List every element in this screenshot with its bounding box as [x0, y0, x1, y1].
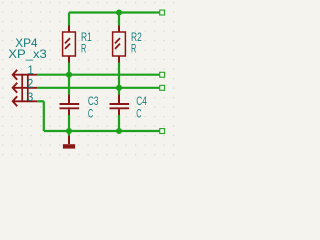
capacitor C3 — [60, 95, 80, 115]
no-connect square wire B end — [160, 85, 165, 90]
wire B pin2 net — [37, 87, 160, 89]
wire R1 top drop — [68, 13, 70, 26]
wire C4 bottom to wire G — [118, 115, 120, 131]
wire top bus — [69, 11, 160, 13]
ground — [63, 136, 75, 149]
connector rail right — [27, 74, 29, 102]
pin 1 arrow — [13, 70, 18, 80]
svg-text:C: C — [88, 106, 94, 120]
wire C3 bottom to wire G — [68, 115, 70, 131]
connector XP4 — [13, 70, 38, 107]
no-connect square wire G end — [160, 129, 165, 134]
svg-text:C: C — [136, 106, 142, 120]
pin 2 line — [13, 87, 38, 89]
wire pin3 vertical drop — [43, 101, 45, 131]
wire A pin1 net — [37, 74, 160, 76]
no-connect square wire A end — [160, 72, 165, 77]
junction wire A at R1 column — [66, 72, 72, 78]
svg-text:XP_x3: XP_x3 — [8, 47, 47, 61]
resistor R2 — [113, 26, 126, 63]
wire R2 bottom to wire B — [118, 63, 120, 88]
pin 1 line — [13, 74, 38, 76]
pin 3 line — [13, 100, 38, 102]
no-connect square top wire end — [160, 10, 165, 15]
svg-text:3: 3 — [27, 90, 33, 104]
capacitor C4 — [110, 95, 130, 115]
svg-text:1: 1 — [28, 63, 34, 77]
wire R2 top drop — [118, 13, 120, 26]
wire C3 top from wire A — [68, 75, 70, 95]
svg-text:2: 2 — [27, 77, 33, 91]
wire C4 top from wire B — [118, 88, 120, 95]
resistor R1 — [63, 26, 76, 63]
junction wire B at R2 column — [116, 85, 122, 91]
junction top at R2 column — [116, 9, 122, 15]
svg-text:R: R — [81, 41, 86, 55]
wire pin3 horizontal stub — [37, 100, 44, 102]
connector rail left — [21, 74, 23, 102]
pin 3 arrow — [13, 96, 18, 106]
pin 2 arrow — [13, 83, 18, 93]
junction wire G at C4 column — [116, 128, 122, 134]
junction wire G at C3 column — [66, 128, 72, 134]
wire G ground bus — [44, 130, 160, 132]
svg-text:R: R — [131, 41, 136, 55]
wire R1 bottom to wire A — [68, 63, 70, 75]
wire ground stub — [68, 131, 70, 136]
